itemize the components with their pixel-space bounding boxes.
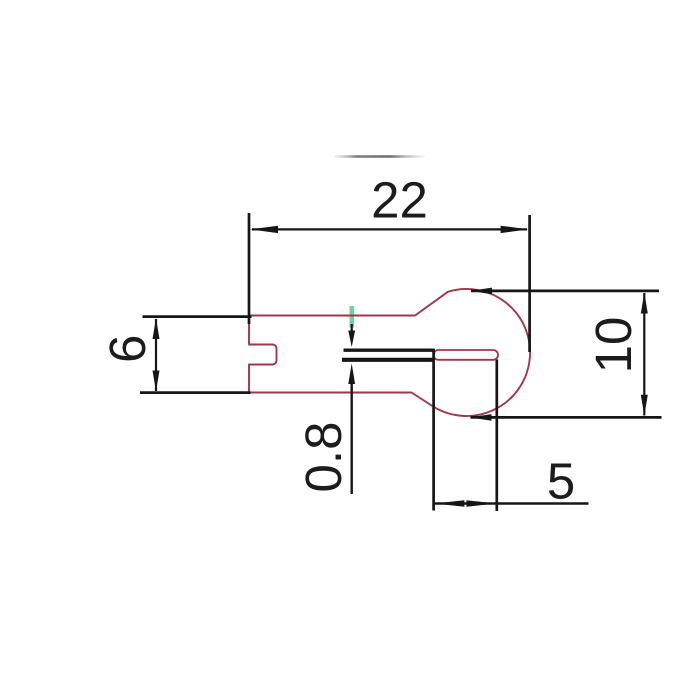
dim 5 dimension line (434, 502, 589, 505)
dim 5 extension line right (495, 360, 498, 512)
dim 10 extension line top (471, 290, 659, 293)
svg-text:22: 22 (371, 172, 428, 229)
dim 10 tangent arrow bottom (470, 414, 492, 421)
dim 22 arrow left (250, 226, 278, 233)
dim 22 extension line right (528, 215, 531, 352)
dim 10 extension line bottom (471, 416, 662, 419)
node tick (teal marker on top edge) (350, 306, 355, 328)
dim 5 arrow right (466, 500, 496, 507)
dim 10 tangent arrow top (470, 288, 492, 295)
dim 10 dimension line (643, 293, 645, 416)
slot upper line (black) (344, 349, 435, 352)
dim 0.8 upper arrow shaft (351, 324, 353, 333)
dim 6 arrow up (153, 318, 160, 339)
slot lower line (black) (342, 358, 435, 362)
dim 10 arrow down (641, 395, 648, 416)
svg-text:6: 6 (99, 335, 156, 363)
dim 22 dimension line (252, 228, 527, 230)
dim 0.8 upper arrow head (down) (348, 331, 355, 348)
dim 22 extension line left (248, 213, 251, 324)
dim 0.8 lower arrow head (up) (348, 363, 355, 384)
dim 6 extension line top (143, 315, 252, 318)
svg-text:10: 10 (585, 317, 642, 374)
dim 10 arrow up (641, 293, 648, 314)
dim 6 arrow down (153, 371, 160, 392)
svg-text:0.8: 0.8 (295, 422, 352, 493)
dim 0.8 lower arrow shaft (351, 383, 353, 494)
dim 6 dimension line (155, 319, 157, 391)
slot in head (red stadium outline) (434, 350, 499, 360)
svg-text:5: 5 (547, 453, 575, 510)
dim 5 extension line left (432, 349, 435, 511)
dim 5 arrow left (434, 500, 464, 507)
dim 22 arrow right (501, 226, 529, 233)
dim 6 extension line bottom (140, 391, 251, 394)
profile outline (red part cross-section) (249, 289, 530, 416)
